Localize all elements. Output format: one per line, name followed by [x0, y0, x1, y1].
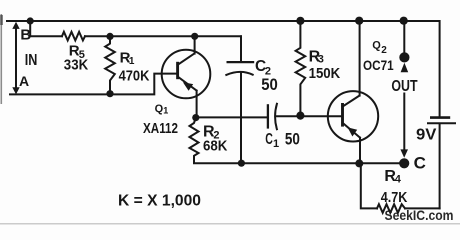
svg-text:C: C: [414, 153, 426, 172]
terminal OUT: [399, 52, 409, 62]
arrow down at C: [400, 149, 408, 157]
input arrow IN: [12, 22, 19, 95]
node OUT top: [400, 17, 408, 25]
node C2 bottom: [238, 160, 245, 167]
resistor R5: [62, 32, 85, 41]
svg-text:50: 50: [285, 130, 300, 149]
svg-text:50: 50: [261, 75, 278, 94]
resistor R3: [296, 21, 306, 115]
arrow up at OUT: [401, 63, 409, 73]
node Q2 collector: [355, 17, 363, 25]
node R3 bottom: [296, 112, 304, 120]
resistor R1: [105, 36, 115, 92]
wire collector line B to C2: [85, 35, 241, 37]
resistor R2: [190, 118, 199, 163]
svg-text:1: 1: [129, 56, 135, 67]
svg-text:33K: 33K: [64, 57, 89, 74]
wire input A line to Q1 base: [10, 74, 177, 95]
svg-text:OC71: OC71: [363, 57, 394, 73]
svg-text:9V: 9V: [416, 127, 437, 144]
svg-text:4.7K: 4.7K: [381, 189, 408, 206]
bottom rail wire: [194, 162, 402, 164]
svg-text:IN: IN: [25, 52, 38, 69]
node R1 bottom: [106, 90, 113, 97]
svg-text:SeekIC.com: SeekIC.com: [385, 208, 454, 223]
wire Q1 emitter to C1: [196, 116, 267, 118]
svg-text:XA112: XA112: [143, 120, 178, 137]
scan edge artifact left: [0, 14, 2, 104]
resistor R4: [377, 204, 405, 213]
svg-text:1: 1: [163, 105, 168, 115]
battery B1: [427, 118, 456, 209]
svg-text:3: 3: [318, 54, 324, 66]
scan artifact bottom: [0, 223, 460, 225]
svg-text:A: A: [19, 73, 29, 89]
wire OUT upper: [403, 21, 405, 52]
node Q2 emitter junction: [355, 159, 363, 167]
svg-text:150K: 150K: [309, 65, 341, 82]
node R1 top: [106, 33, 113, 40]
transistor Q1: [162, 36, 211, 117]
wire B drop: [30, 22, 62, 36]
battery top lead wire: [439, 21, 441, 117]
transistor Q2: [328, 22, 378, 163]
svg-text:C: C: [265, 131, 273, 148]
svg-text:470K: 470K: [119, 68, 150, 85]
svg-text:K = X 1,000: K = X 1,000: [118, 192, 201, 209]
svg-text:68K: 68K: [203, 138, 228, 155]
svg-text:2: 2: [381, 45, 387, 56]
svg-text:Q: Q: [372, 40, 381, 52]
wire R4 to battery: [405, 207, 440, 209]
terminal C: [399, 158, 409, 168]
wire OUT lower: [403, 94, 405, 150]
top rail wire: [7, 20, 439, 22]
svg-text:OUT: OUT: [391, 78, 417, 95]
capacitor C2: [226, 36, 254, 162]
node R3 top: [296, 17, 304, 25]
node Q1 emitter junction: [192, 114, 199, 121]
node Q1 collector: [191, 33, 198, 40]
svg-text:1: 1: [273, 138, 279, 150]
wire Q2 base: [300, 115, 342, 117]
capacitor C1: [268, 104, 300, 129]
node B on top rail: [27, 17, 34, 24]
wire emitter down to R4: [361, 163, 377, 208]
svg-text:4: 4: [395, 174, 402, 186]
